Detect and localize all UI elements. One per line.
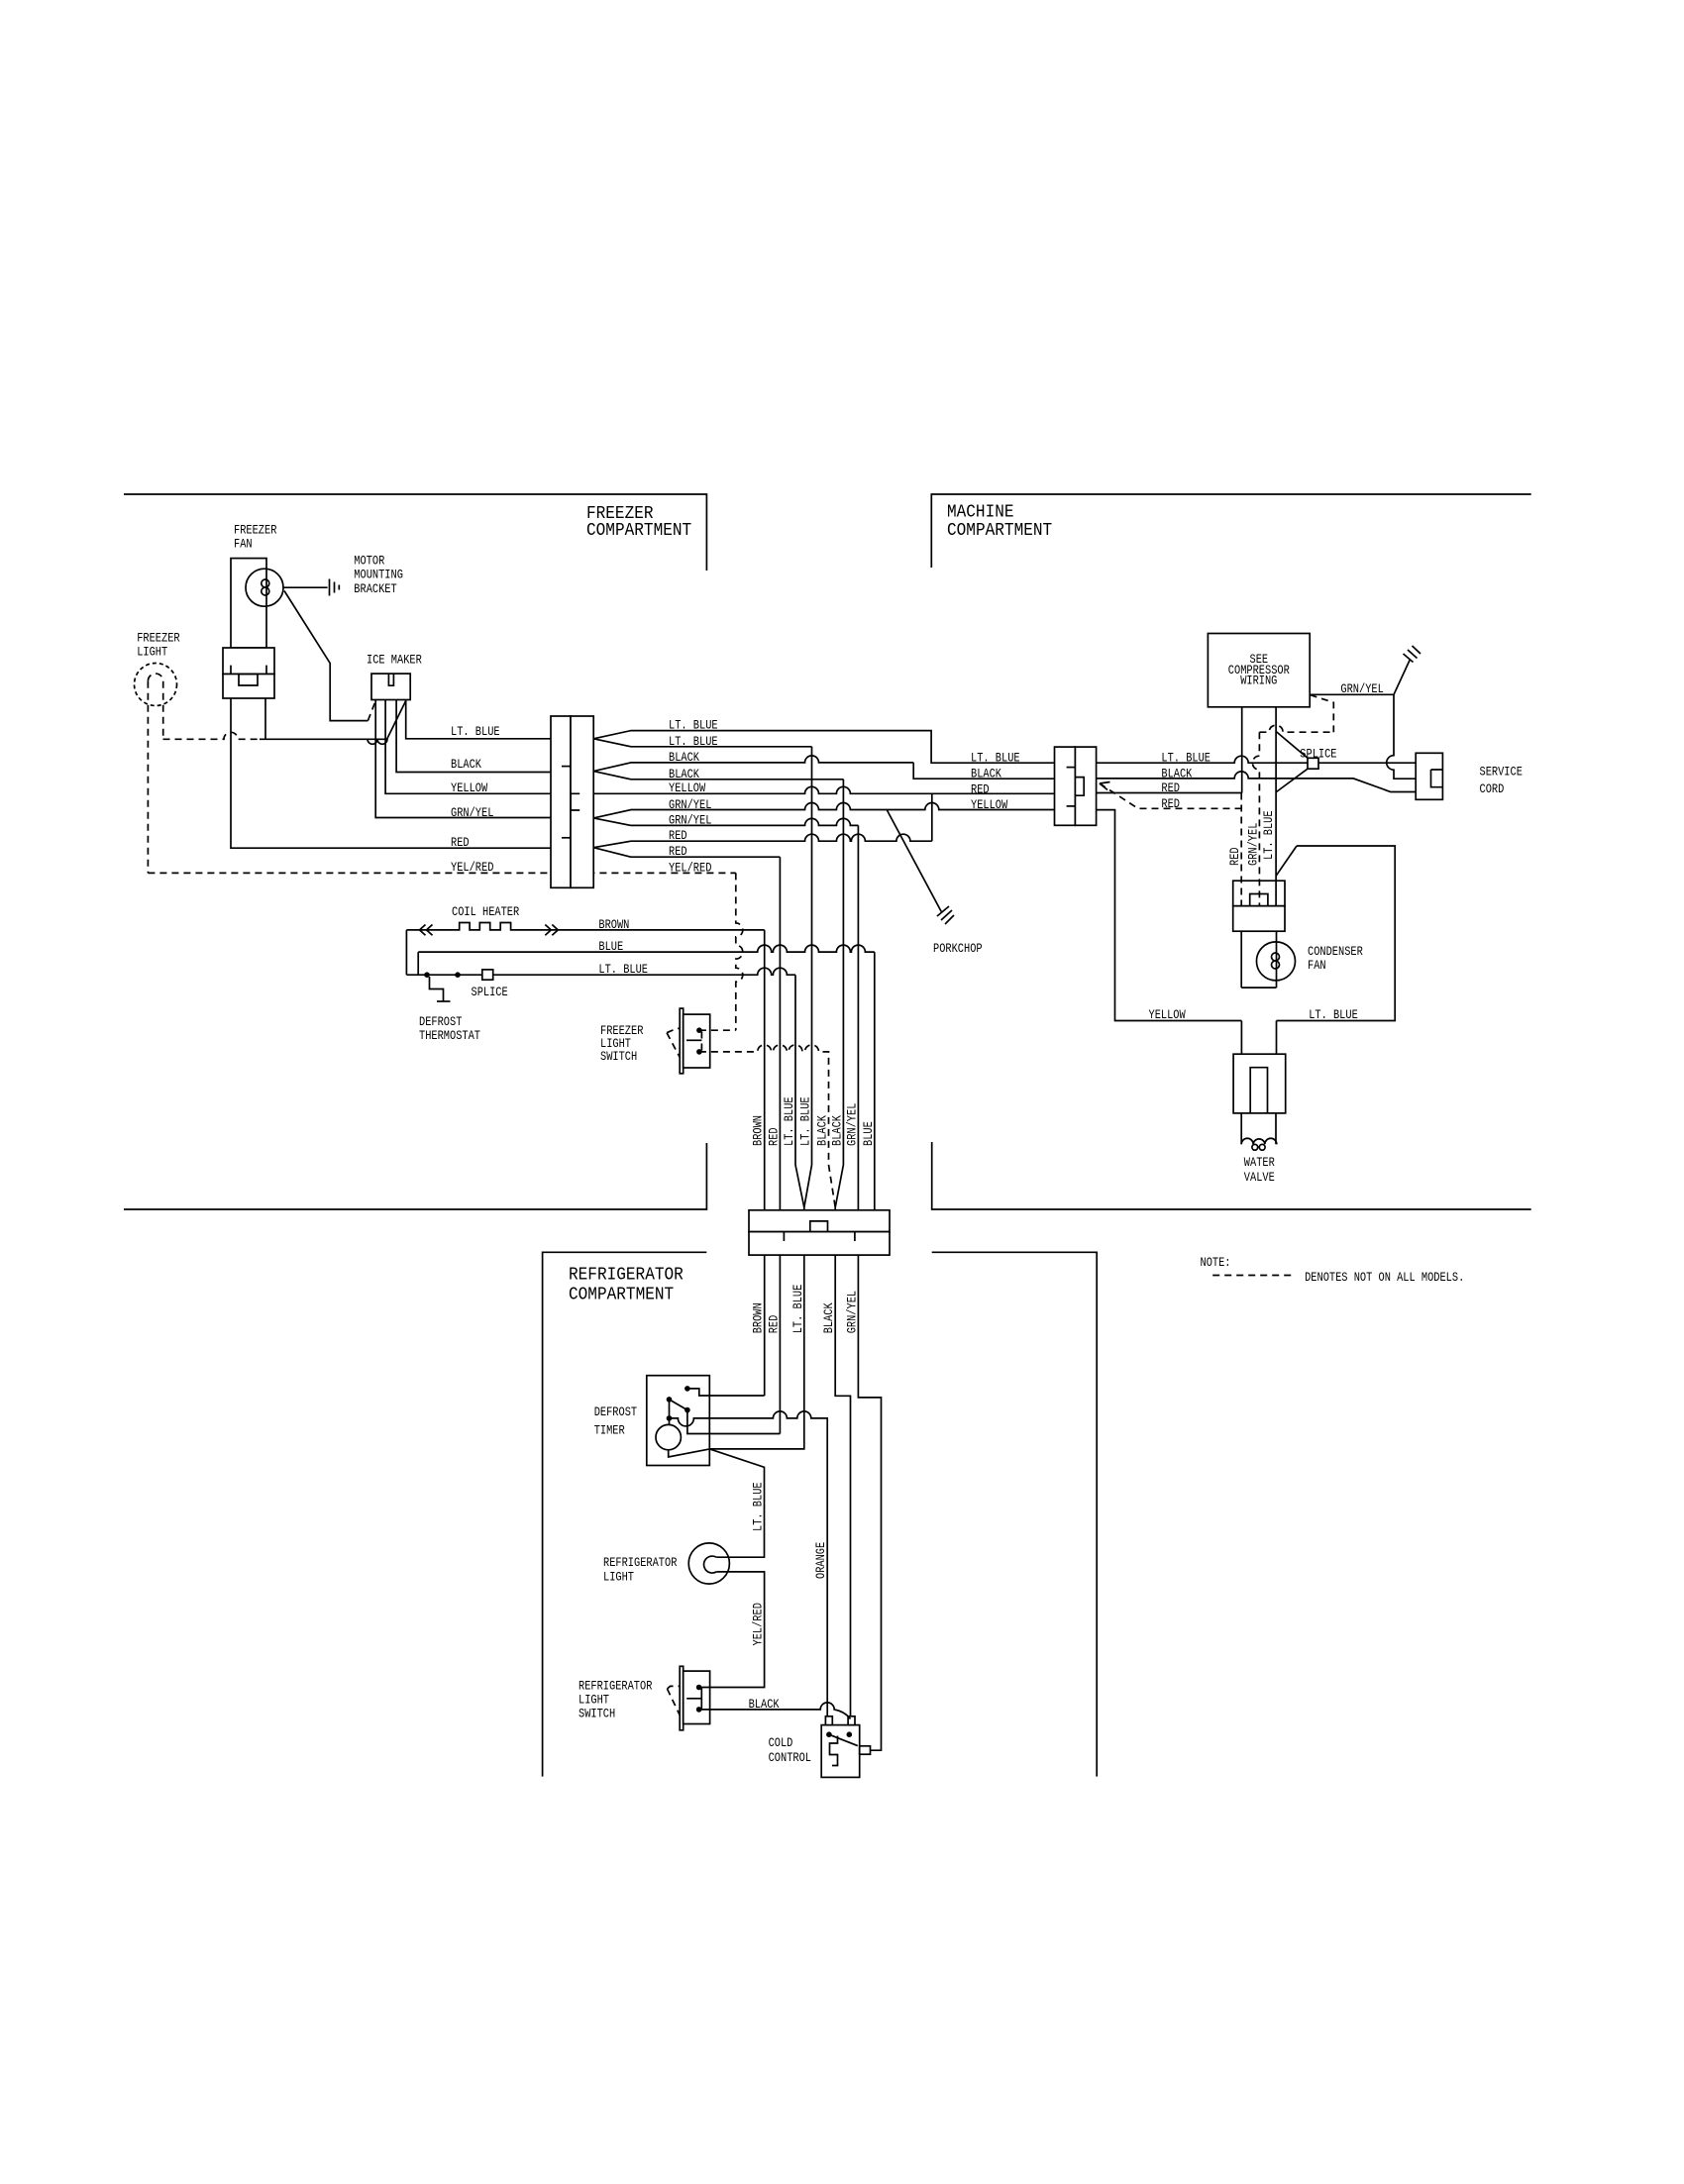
svg-text:FAN: FAN	[234, 536, 253, 551]
svg-text:LT. BLUE: LT. BLUE	[1309, 1007, 1358, 1022]
svg-text:GRN/YEL: GRN/YEL	[451, 805, 493, 820]
svg-text:BRACKET: BRACKET	[354, 581, 397, 596]
svg-text:YEL/RED: YEL/RED	[451, 860, 494, 875]
svg-text:MACHINE: MACHINE	[947, 503, 1014, 523]
svg-text:YELLOW: YELLOW	[971, 797, 1007, 812]
svg-text:BLACK: BLACK	[669, 767, 699, 781]
svg-text:COMPARTMENT: COMPARTMENT	[586, 521, 691, 541]
svg-text:PORKCHOP: PORKCHOP	[933, 941, 983, 956]
svg-text:LT. BLUE: LT. BLUE	[1261, 810, 1276, 860]
svg-text:RED: RED	[1161, 780, 1180, 795]
svg-text:CORD: CORD	[1480, 781, 1505, 796]
svg-text:LIGHT: LIGHT	[137, 644, 167, 659]
svg-text:SPLICE: SPLICE	[1300, 747, 1336, 762]
svg-text:BROWN: BROWN	[598, 917, 629, 932]
svg-text:RED: RED	[669, 844, 687, 859]
svg-text:YEL/RED: YEL/RED	[669, 860, 712, 875]
svg-text:RED: RED	[669, 828, 687, 843]
svg-text:BROWN: BROWN	[751, 1115, 766, 1146]
svg-text:GRN/YEL: GRN/YEL	[844, 1103, 859, 1146]
svg-text:THERMOSTAT: THERMOSTAT	[419, 1028, 480, 1043]
svg-text:MOUNTING: MOUNTING	[354, 568, 403, 582]
svg-text:SWITCH: SWITCH	[600, 1049, 637, 1064]
svg-text:LT. BLUE: LT. BLUE	[798, 1096, 813, 1146]
svg-text:RED: RED	[766, 1315, 781, 1334]
svg-text:COMPARTMENT: COMPARTMENT	[569, 1285, 674, 1304]
svg-text:BLACK: BLACK	[451, 757, 481, 772]
svg-text:RED: RED	[1161, 796, 1180, 811]
svg-text:REFRIGERATOR: REFRIGERATOR	[569, 1265, 684, 1285]
svg-text:YELLOW: YELLOW	[1149, 1007, 1186, 1022]
svg-text:BLACK: BLACK	[1161, 766, 1192, 780]
svg-text:YELLOW: YELLOW	[451, 780, 487, 795]
svg-text:COIL HEATER: COIL HEATER	[452, 904, 519, 919]
svg-text:NOTE:: NOTE:	[1201, 1255, 1231, 1270]
svg-text:CONDENSER: CONDENSER	[1308, 944, 1363, 959]
svg-text:ORANGE: ORANGE	[813, 1542, 828, 1579]
svg-text:LT. BLUE: LT. BLUE	[971, 751, 1020, 766]
svg-text:LT. BLUE: LT. BLUE	[751, 1482, 766, 1531]
svg-text:GRN/YEL: GRN/YEL	[844, 1291, 859, 1333]
svg-text:DEFROST: DEFROST	[419, 1014, 463, 1029]
svg-text:MOTOR: MOTOR	[354, 554, 384, 569]
svg-text:ICE MAKER: ICE MAKER	[367, 652, 422, 667]
svg-text:RED: RED	[451, 835, 470, 850]
svg-text:LT. BLUE: LT. BLUE	[669, 718, 718, 733]
svg-text:LT. BLUE: LT. BLUE	[598, 962, 648, 977]
svg-text:BLACK: BLACK	[829, 1115, 844, 1146]
svg-text:BLACK: BLACK	[669, 750, 699, 765]
svg-text:WATER: WATER	[1244, 1155, 1275, 1170]
svg-text:YELLOW: YELLOW	[669, 780, 705, 795]
svg-text:FREEZER: FREEZER	[234, 522, 277, 537]
svg-text:YEL/RED: YEL/RED	[751, 1603, 766, 1646]
svg-text:BLACK: BLACK	[749, 1697, 780, 1712]
svg-text:RED: RED	[1227, 847, 1242, 866]
svg-text:SERVICE: SERVICE	[1480, 764, 1524, 779]
svg-text:GRN/YEL: GRN/YEL	[669, 812, 711, 827]
svg-text:REFRIGERATOR: REFRIGERATOR	[579, 1679, 653, 1694]
svg-text:COLD: COLD	[769, 1735, 793, 1750]
svg-text:REFRIGERATOR: REFRIGERATOR	[603, 1555, 678, 1570]
svg-text:DEFROST: DEFROST	[594, 1404, 638, 1419]
svg-text:SWITCH: SWITCH	[579, 1707, 615, 1721]
svg-text:DENOTES NOT ON ALL MODELS.: DENOTES NOT ON ALL MODELS.	[1305, 1270, 1464, 1285]
svg-text:LT. BLUE: LT. BLUE	[1161, 751, 1210, 766]
svg-text:GRN/YEL: GRN/YEL	[1245, 823, 1260, 866]
svg-text:LT. BLUE: LT. BLUE	[451, 724, 500, 739]
svg-text:LIGHT: LIGHT	[603, 1570, 634, 1585]
svg-text:BLACK: BLACK	[815, 1115, 830, 1146]
svg-text:BLUE: BLUE	[598, 939, 623, 954]
svg-text:BLACK: BLACK	[971, 767, 1001, 781]
svg-text:FREEZER: FREEZER	[137, 630, 180, 645]
svg-text:VALVE: VALVE	[1244, 1170, 1275, 1185]
svg-text:RED: RED	[971, 782, 990, 797]
svg-text:LT. BLUE: LT. BLUE	[669, 734, 718, 749]
svg-text:COMPARTMENT: COMPARTMENT	[947, 521, 1052, 541]
svg-text:TIMER: TIMER	[594, 1422, 625, 1437]
svg-text:SPLICE: SPLICE	[472, 985, 508, 999]
svg-text:GRN/YEL: GRN/YEL	[669, 797, 711, 812]
svg-text:LT. BLUE: LT. BLUE	[782, 1096, 796, 1146]
svg-text:BLACK: BLACK	[821, 1302, 836, 1333]
svg-text:FAN: FAN	[1308, 958, 1326, 973]
svg-text:RED: RED	[766, 1127, 781, 1146]
svg-text:GRN/YEL: GRN/YEL	[1340, 681, 1383, 696]
svg-text:LT. BLUE: LT. BLUE	[790, 1285, 805, 1334]
svg-text:CONTROL: CONTROL	[769, 1750, 811, 1765]
svg-text:BLUE: BLUE	[861, 1121, 876, 1146]
svg-text:BROWN: BROWN	[751, 1302, 766, 1333]
svg-text:WIRING: WIRING	[1240, 674, 1277, 688]
svg-text:LIGHT: LIGHT	[579, 1693, 609, 1708]
